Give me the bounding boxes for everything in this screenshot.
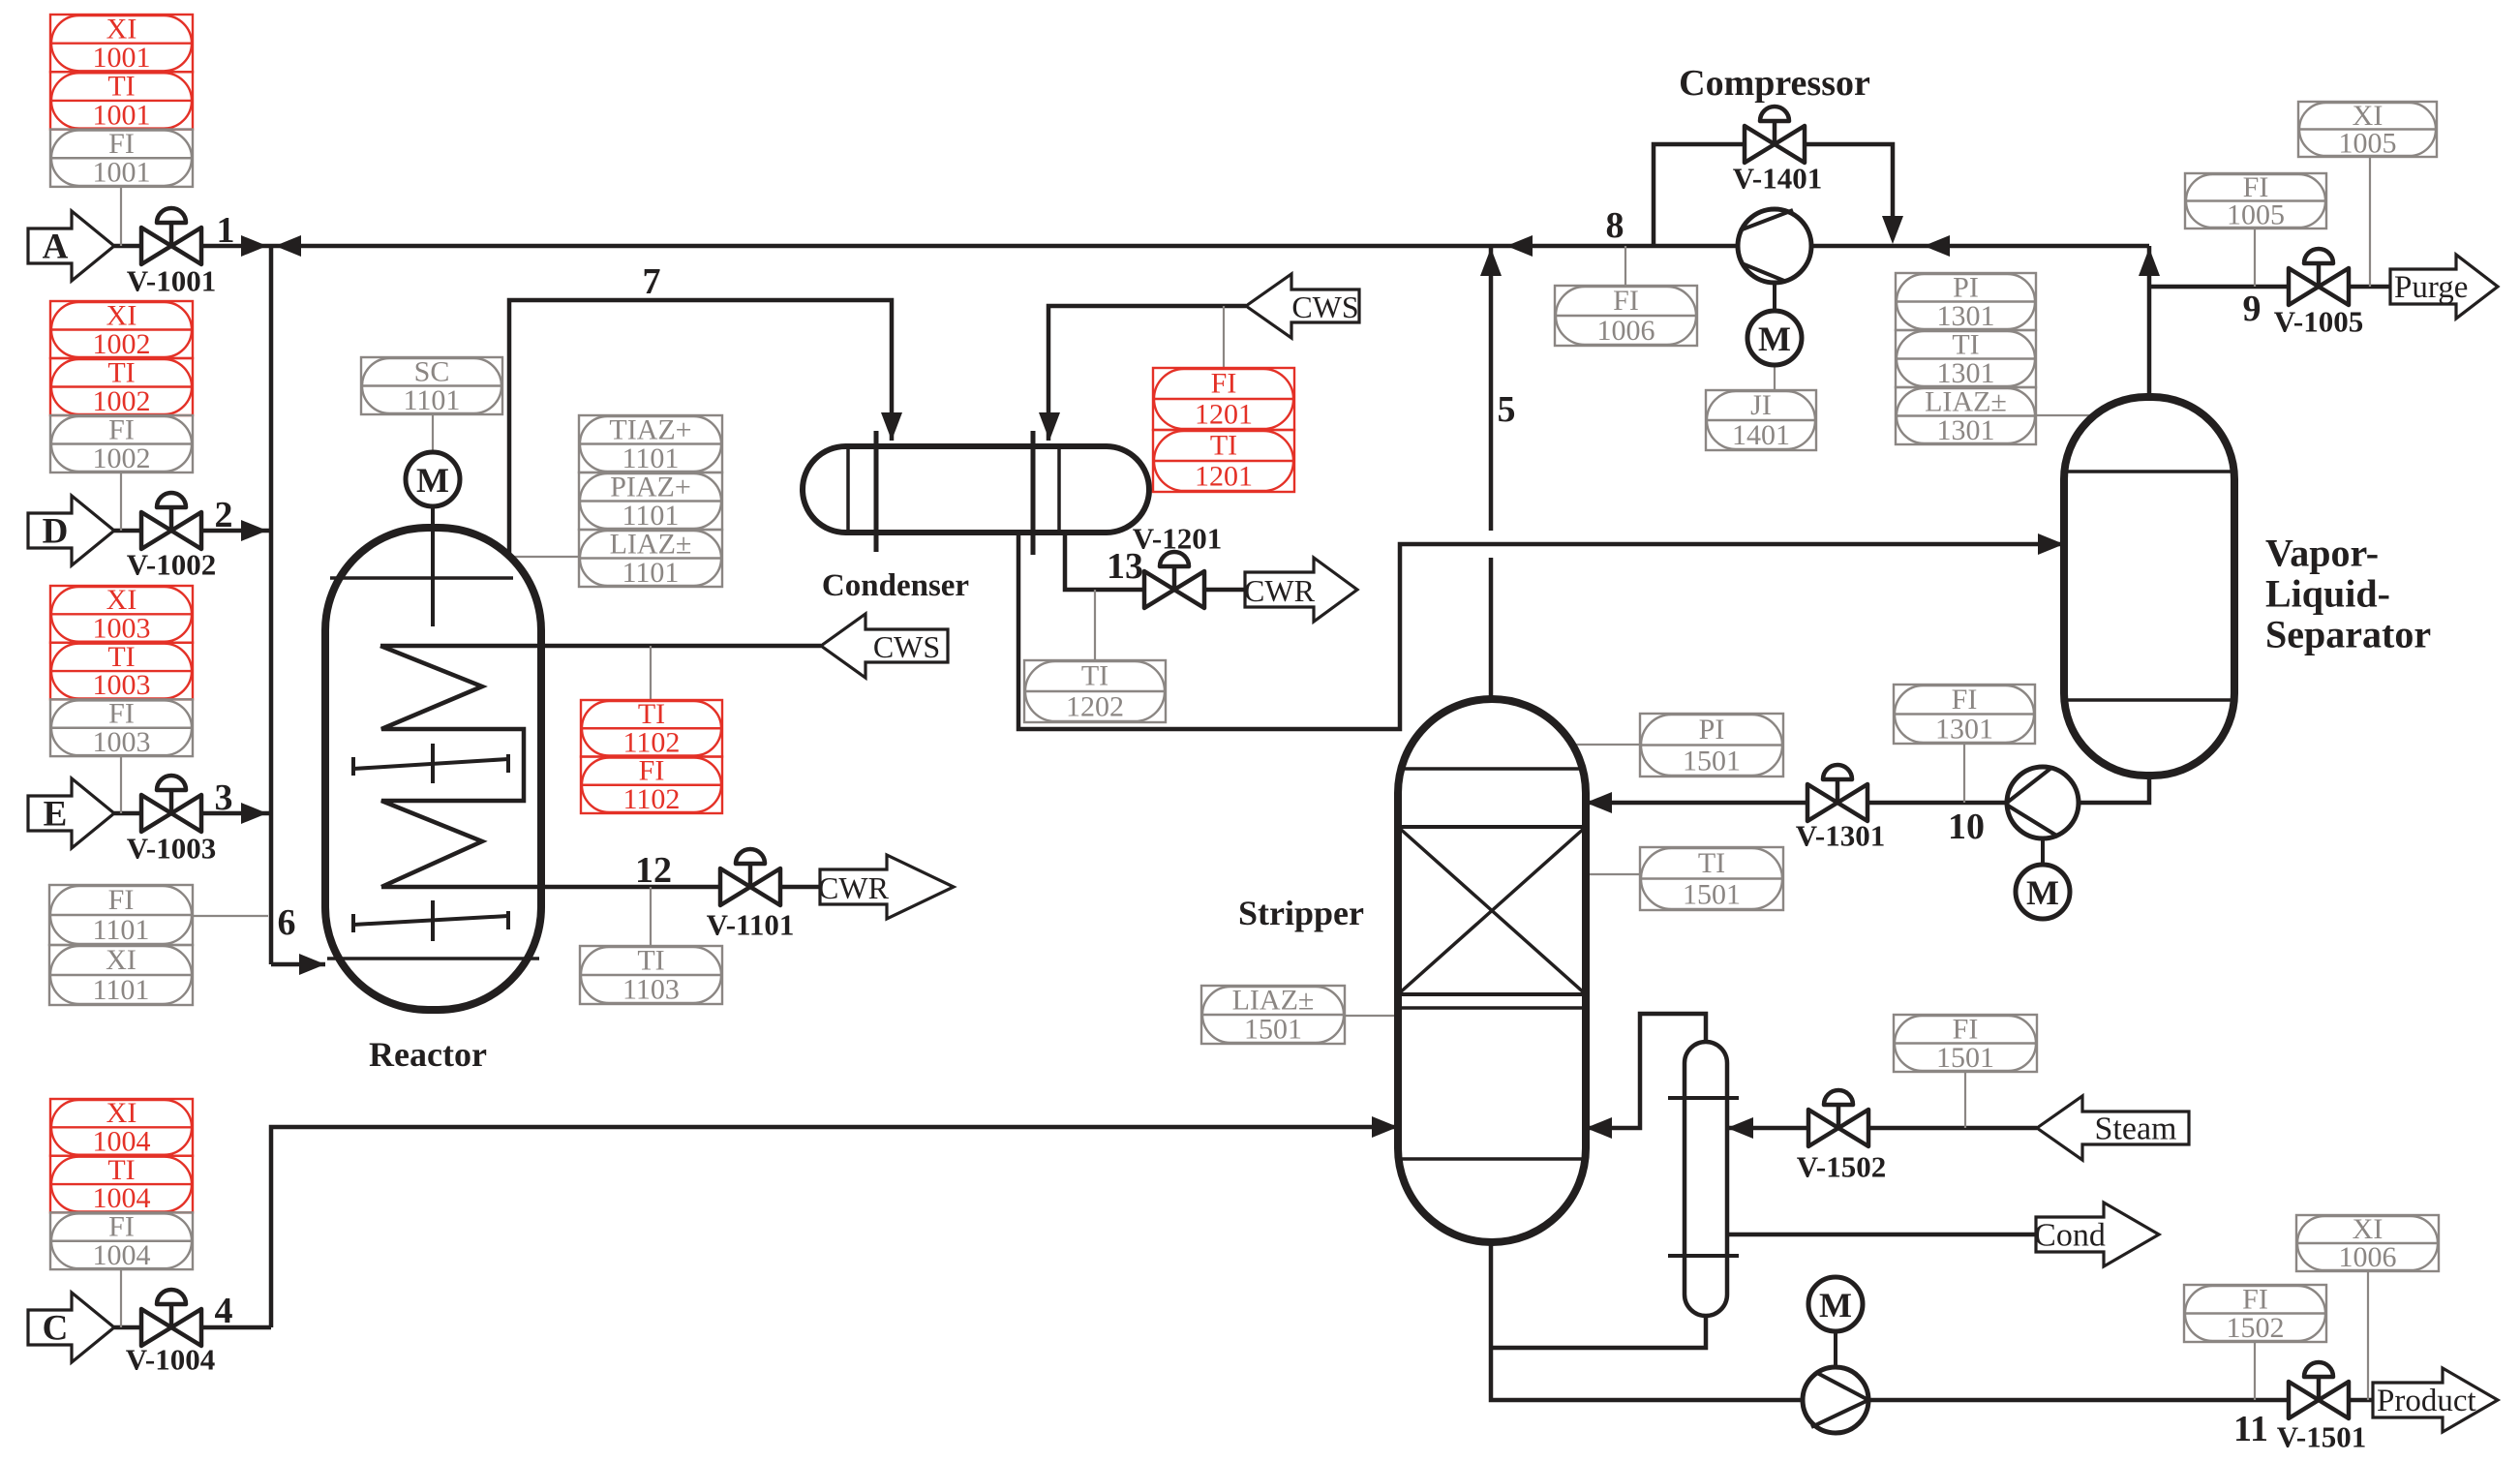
instrument stack 1003 row FI 1003	[50, 699, 193, 756]
wire stream 2 b	[201, 529, 271, 533]
instrument XI-1006	[2296, 1215, 2439, 1271]
reboiler top tube sheet	[1668, 1096, 1739, 1100]
svg-text:Steam: Steam	[2095, 1112, 2177, 1147]
reactor coil bottom pipe interior	[381, 885, 542, 890]
wire reactor coil CWS pipe	[380, 644, 821, 649]
svg-text:1003: 1003	[93, 669, 151, 701]
svg-text:1001: 1001	[93, 157, 151, 189]
gray drop FI-1006	[1624, 246, 1626, 286]
compressor chord top	[1740, 210, 1793, 230]
svg-text:V-1002: V-1002	[127, 548, 216, 582]
svg-text:1301: 1301	[1935, 713, 1993, 745]
svg-text:LIAZ±: LIAZ±	[1925, 385, 2007, 417]
pump product chord b	[1811, 1400, 1868, 1427]
wire feed header vertical x=280	[269, 246, 274, 964]
gray link FI-1101 to header	[193, 915, 268, 917]
instrument XI-1005	[2298, 102, 2437, 157]
gray link SC-1101 to motor	[432, 414, 434, 452]
svg-text:PI: PI	[1699, 714, 1725, 746]
svg-text:1201: 1201	[1195, 461, 1253, 493]
svg-text:1006: 1006	[1597, 315, 1655, 347]
instrument FI-1501	[1894, 1015, 2037, 1072]
svg-text:4: 4	[215, 1291, 233, 1331]
svg-text:PI: PI	[1953, 271, 1979, 303]
svg-text:E: E	[44, 795, 68, 835]
arrow stream 2	[241, 520, 267, 541]
svg-text:V-1502: V-1502	[1797, 1150, 1886, 1184]
wire stream 13 a	[1065, 534, 1144, 590]
valve V-1501	[2289, 1362, 2349, 1418]
instrument stack 1004 row TI 1004	[50, 1156, 193, 1213]
wire stream 1 V-1001 to junction	[201, 244, 271, 249]
svg-text:1101: 1101	[622, 500, 680, 532]
instrument FI-1502	[2184, 1285, 2326, 1342]
svg-text:XI: XI	[106, 299, 137, 331]
svg-text:FI: FI	[108, 413, 135, 445]
wire stream 1 from A arrow to V-1001	[114, 244, 141, 249]
arrow CWR condenser	[1245, 558, 1357, 622]
svg-text:M: M	[416, 461, 449, 500]
instrument stack 1002 row XI 1002	[50, 301, 193, 358]
wire steam V-1502 to reboiler	[1727, 1126, 1808, 1131]
wire bypass left	[1654, 144, 1745, 246]
wire reboiler drain	[1491, 1316, 1706, 1348]
wire stream 7 reactor to condenser	[509, 300, 892, 557]
reactor paddle 2 left tick	[351, 914, 355, 932]
svg-text:2: 2	[215, 495, 233, 535]
gray drop stack 1003	[120, 756, 122, 813]
arrow Cond	[2036, 1203, 2159, 1266]
valve V-1002	[141, 493, 201, 549]
arrow stream 7 into condenser	[881, 412, 902, 441]
svg-text:PIAZ+: PIAZ+	[610, 471, 691, 503]
instrument stack 1004 row XI 1004	[50, 1099, 193, 1156]
condenser left head weld	[846, 448, 850, 531]
svg-text:1103: 1103	[622, 974, 680, 1006]
valve V-1502	[1808, 1090, 1868, 1146]
gray drop FI-1501	[1964, 1072, 1966, 1128]
instrument stack 1101 alarms row LIAZ&#177; 1101	[579, 530, 722, 587]
svg-text:CWS: CWS	[873, 629, 940, 664]
svg-text:JI: JI	[1750, 389, 1772, 421]
svg-text:M: M	[2026, 873, 2059, 912]
svg-text:12: 12	[635, 850, 672, 891]
svg-text:FI: FI	[1953, 1013, 1979, 1045]
wire bypass right	[1805, 144, 1893, 223]
condenser left tube sheet	[874, 431, 879, 552]
svg-text:1001: 1001	[93, 99, 151, 131]
gray link PI-1501	[1575, 744, 1640, 746]
motor M compressor	[1747, 311, 1802, 365]
svg-text:Condenser: Condenser	[822, 568, 969, 603]
wire stream 3 b	[201, 811, 271, 816]
gray drop TI-1202	[1094, 590, 1096, 660]
wire stream 13 b	[1204, 588, 1245, 593]
reactor paddle 1	[353, 759, 508, 769]
instrument TI-1501	[1640, 847, 1783, 910]
arrow recycle after stream5	[1506, 235, 1533, 257]
wire stream 4 a	[114, 1325, 141, 1330]
feed arrow C	[28, 1293, 114, 1362]
compressor circle	[1738, 209, 1811, 283]
svg-text:TI: TI	[1952, 328, 1979, 360]
svg-text:XI: XI	[106, 1097, 137, 1129]
wire stream 5 upper	[1489, 246, 1494, 531]
stripper packing bottom	[1398, 992, 1586, 996]
pump 10 chord b	[2008, 806, 2058, 837]
svg-text:CWR: CWR	[818, 870, 890, 905]
wire condensate to Cond	[1727, 1233, 2036, 1237]
svg-text:1101: 1101	[93, 914, 150, 946]
arrow feed into separator	[2038, 533, 2064, 555]
valve V-1101	[720, 849, 780, 905]
instrument FI-1005	[2185, 173, 2326, 228]
arrow Steam	[2037, 1096, 2189, 1160]
valve V-1004	[141, 1290, 201, 1346]
wire stream 9 purge a	[2149, 285, 2289, 289]
valve V-1201	[1144, 552, 1204, 608]
feed arrow D	[28, 496, 114, 565]
svg-text:1101: 1101	[404, 384, 461, 416]
gray link TI-1501	[1586, 873, 1640, 875]
svg-text:TI: TI	[107, 641, 135, 673]
arrow steam into reboiler	[1727, 1117, 1753, 1139]
gray drop TI-1103	[650, 887, 652, 946]
instrument PI-1501	[1640, 714, 1783, 777]
gray drop XI-1005	[2369, 157, 2371, 287]
svg-text:1003: 1003	[93, 613, 151, 645]
valve V-1001	[141, 208, 201, 264]
stripper vessel	[1398, 699, 1586, 1242]
instrument stack 1101 row FI 1101	[49, 885, 193, 945]
svg-text:1401: 1401	[1732, 419, 1790, 451]
svg-text:FI: FI	[1613, 285, 1639, 317]
stripper top tangent	[1401, 767, 1583, 771]
svg-text:FI: FI	[2242, 1283, 2268, 1315]
gray drop stack 1002	[120, 472, 122, 531]
svg-text:1502: 1502	[2227, 1312, 2285, 1344]
wire condenser outlet to separator	[1018, 533, 2064, 729]
svg-text:Product: Product	[2377, 1384, 2476, 1418]
pump product motor stem	[1834, 1331, 1837, 1367]
wire stream 4 to stripper	[271, 1127, 1398, 1327]
pump stream 10 circle	[2007, 767, 2079, 838]
compressor chord bottom	[1742, 263, 1784, 281]
svg-text:1102: 1102	[623, 726, 681, 758]
arrow stream 6 into reactor	[299, 954, 325, 975]
svg-text:9: 9	[2243, 289, 2262, 329]
arrow CWS reactor	[821, 614, 948, 678]
instrument stack 1301 row PI 1301	[1896, 273, 2036, 330]
instrument stack 1102 row FI 1102	[581, 757, 722, 814]
wire stream 12 reactor coil to V-1101	[381, 885, 720, 890]
svg-text:M: M	[1819, 1286, 1852, 1325]
svg-text:V-1401: V-1401	[1733, 162, 1822, 196]
svg-text:1501: 1501	[1936, 1042, 1994, 1074]
instrument SC-1101	[361, 357, 502, 414]
instrument stack 1003 row TI 1003	[50, 643, 193, 700]
instrument stack 1101 alarms row TIAZ+ 1101	[579, 415, 722, 472]
svg-text:Cond: Cond	[2034, 1218, 2106, 1254]
wire stream 12 V-1101 to CWR	[780, 885, 820, 890]
condenser right tube sheet	[1031, 431, 1036, 555]
instrument TI-1202	[1024, 660, 1166, 722]
reactor shaft at paddle 1	[431, 744, 435, 783]
svg-text:TI: TI	[107, 356, 135, 388]
wire CWS supply to condenser	[1048, 306, 1246, 441]
valve V-1401	[1745, 107, 1805, 163]
arrow stream 3	[241, 803, 267, 824]
svg-text:Liquid-: Liquid-	[2265, 572, 2390, 616]
arrow CWS condenser	[1246, 274, 1359, 338]
instrument stack 1004 row FI 1004	[50, 1212, 193, 1269]
svg-text:1202: 1202	[1066, 691, 1124, 723]
svg-text:V-1005: V-1005	[2274, 305, 2363, 339]
svg-text:Compressor: Compressor	[1679, 63, 1870, 104]
svg-text:1004: 1004	[93, 1182, 151, 1214]
svg-text:1101: 1101	[622, 557, 680, 589]
svg-text:FI: FI	[108, 128, 135, 160]
arrow stream 5 into recycle	[1480, 248, 1502, 276]
wire stream 11 pump to V-1501	[1868, 1398, 2289, 1403]
gray drop TI-1102	[650, 646, 652, 700]
svg-text:TI: TI	[637, 945, 664, 977]
wire stream 4 b	[201, 1325, 271, 1330]
arrow CWR reactor	[820, 855, 954, 919]
motor M product pump	[1808, 1277, 1863, 1331]
reactor paddle 1 left tick	[351, 757, 355, 776]
pump 10 motor stem	[2041, 838, 2045, 865]
wire recycle main line y=254	[271, 244, 2149, 249]
svg-text:1006: 1006	[2339, 1241, 2397, 1273]
instrument stack 1003 row XI 1003	[50, 586, 193, 643]
svg-text:1501: 1501	[1244, 1014, 1302, 1046]
svg-text:TI: TI	[107, 71, 135, 103]
svg-text:1001: 1001	[93, 42, 151, 74]
gray drop stack 1004	[120, 1269, 122, 1327]
gray drop JI-1401	[1774, 365, 1776, 390]
reboiler bottom tube sheet	[1668, 1254, 1739, 1258]
stripper bottom tangent	[1401, 1157, 1583, 1161]
wire stream 10 pump to V-1301	[1867, 801, 2007, 806]
gray drop FI-1201	[1223, 306, 1225, 368]
svg-text:5: 5	[1498, 389, 1516, 430]
wire stream 10 V-1301 to stripper	[1586, 801, 1807, 806]
pump product circle	[1803, 1367, 1868, 1433]
svg-text:FI: FI	[1952, 684, 1978, 716]
svg-text:1102: 1102	[623, 783, 681, 815]
reactor paddle 1 right tick	[506, 754, 510, 773]
svg-text:FI: FI	[108, 698, 135, 730]
motor M pump 10	[2016, 865, 2070, 919]
instrument stack 1102 row TI 1102	[581, 700, 722, 757]
svg-text:D: D	[43, 512, 69, 552]
svg-text:FI: FI	[108, 1211, 135, 1243]
svg-text:1201: 1201	[1195, 399, 1253, 431]
svg-text:FI: FI	[1211, 368, 1237, 400]
svg-text:A: A	[43, 228, 69, 267]
svg-text:1501: 1501	[1683, 878, 1741, 910]
gray link TIAZ stack to stream 7	[510, 556, 579, 558]
svg-text:1101: 1101	[622, 442, 680, 474]
instrument stack 1201 row FI 1201	[1153, 368, 1294, 430]
svg-text:1004: 1004	[93, 1239, 151, 1271]
gray drop stack 1001	[120, 187, 122, 246]
svg-text:Vapor-: Vapor-	[2265, 532, 2379, 575]
instrument stack 1002 row TI 1002	[50, 358, 193, 415]
arrow stream 4 into stripper	[1372, 1116, 1398, 1138]
svg-text:TI: TI	[107, 1154, 135, 1186]
svg-text:1301: 1301	[1937, 357, 1995, 389]
svg-text:1003: 1003	[93, 726, 151, 758]
svg-text:XI: XI	[106, 584, 137, 616]
svg-text:13: 13	[1107, 546, 1143, 587]
condenser shell	[803, 446, 1149, 533]
instrument stack 1001 row FI 1001	[50, 130, 193, 187]
svg-text:7: 7	[643, 261, 661, 302]
svg-text:8: 8	[1606, 205, 1624, 246]
instrument stack 1001 row TI 1001	[50, 72, 193, 129]
wire separator vapor to recycle	[2147, 246, 2152, 397]
svg-text:1301: 1301	[1937, 414, 1995, 446]
svg-text:TI: TI	[638, 698, 665, 730]
svg-text:Stripper: Stripper	[1238, 894, 1364, 932]
svg-text:XI: XI	[106, 944, 137, 976]
valve V-1003	[141, 776, 201, 832]
arrow Purge	[2390, 255, 2498, 319]
arrow stream 1 into junction	[241, 235, 267, 257]
arrow bypass into main	[1882, 216, 1903, 244]
motor M reactor agitator	[406, 452, 460, 506]
svg-text:1101: 1101	[93, 974, 150, 1006]
instrument stack 1101 row XI 1101	[49, 945, 193, 1005]
svg-text:1005: 1005	[2339, 127, 2397, 159]
arrow recycle into junction	[275, 235, 301, 257]
gray link LIAZ-1501	[1345, 1015, 1398, 1017]
svg-text:V-1201: V-1201	[1133, 522, 1222, 556]
svg-text:V-1003: V-1003	[127, 832, 216, 866]
svg-text:CWR: CWR	[1244, 573, 1316, 608]
compressor motor stem	[1773, 283, 1776, 311]
svg-text:11: 11	[2233, 1409, 2268, 1449]
svg-text:1005: 1005	[2227, 198, 2285, 230]
arrow recycle after compressor	[1924, 235, 1950, 257]
separator vessel	[2064, 397, 2234, 776]
reactor coil top pipe interior	[380, 644, 542, 649]
svg-text:Purge: Purge	[2394, 270, 2468, 305]
svg-text:LIAZ±: LIAZ±	[1232, 985, 1315, 1017]
svg-text:CWS: CWS	[1291, 289, 1358, 324]
svg-text:V-1101: V-1101	[707, 908, 795, 942]
instrument stack 1001 row XI 1001	[50, 15, 193, 72]
instrument stack 1301 row TI 1301	[1896, 330, 2036, 387]
svg-text:TI: TI	[1698, 847, 1725, 879]
instrument stack 1201 row TI 1201	[1153, 430, 1294, 492]
svg-text:1002: 1002	[93, 328, 151, 360]
reactor paddle 2 right tick	[506, 911, 510, 929]
reboiler vessel	[1685, 1042, 1727, 1316]
valve V-1301	[1807, 765, 1867, 821]
instrument stack 1301 row LIAZ&#177; 1301	[1896, 387, 2036, 444]
feed arrow E	[28, 778, 114, 848]
svg-text:Reactor: Reactor	[369, 1035, 487, 1074]
wire stream 2 a	[114, 529, 141, 533]
instrument LIAZ-1501	[1201, 986, 1345, 1044]
arrow stream 10 into stripper	[1586, 792, 1612, 813]
reactor cooling coil zigzag	[380, 646, 524, 887]
svg-text:1: 1	[217, 210, 235, 251]
svg-text:TIAZ+: TIAZ+	[609, 413, 691, 445]
reactor paddle 2	[353, 916, 508, 925]
instrument JI-1401	[1706, 390, 1816, 450]
svg-text:LIAZ±: LIAZ±	[610, 528, 692, 560]
instrument stack 1002 row FI 1002	[50, 415, 193, 472]
reactor shaft at paddle 2	[431, 900, 435, 941]
instrument stack 1101 alarms row PIAZ+ 1101	[579, 472, 722, 530]
arrow separator vapor up	[2139, 248, 2160, 276]
svg-text:SC: SC	[414, 355, 450, 387]
arrow Product	[2373, 1368, 2498, 1432]
svg-text:XI: XI	[106, 13, 137, 45]
arrow CWS into condenser	[1039, 412, 1060, 441]
reactor agitator shaft	[431, 506, 435, 626]
svg-text:1004: 1004	[93, 1126, 151, 1158]
instrument FI-1006	[1555, 286, 1697, 346]
svg-text:V-1501: V-1501	[2277, 1420, 2366, 1454]
wire stream 6 into reactor	[271, 962, 325, 967]
wire stream 3 a	[114, 811, 141, 816]
svg-text:1501: 1501	[1683, 745, 1741, 777]
svg-text:1002: 1002	[93, 442, 151, 474]
gray drop FI-1301	[1963, 744, 1965, 803]
svg-text:6: 6	[278, 902, 296, 943]
reactor top tangent line	[330, 576, 513, 580]
gray drop XI-1006	[2367, 1271, 2369, 1400]
svg-text:TI: TI	[1081, 660, 1108, 692]
svg-text:10: 10	[1948, 807, 1985, 847]
arrow reboiler return into stripper	[1586, 1117, 1612, 1139]
svg-text:V-1301: V-1301	[1796, 819, 1885, 853]
svg-text:V-1001: V-1001	[127, 264, 216, 298]
pump 10 chord a	[2007, 768, 2051, 803]
wire stream 11 stripper bottoms to pump	[1491, 1242, 1803, 1400]
instrument FI-1301	[1894, 685, 2035, 744]
reactor vessel	[325, 528, 541, 1010]
svg-text:3: 3	[215, 777, 233, 818]
stripper packing X diag 1	[1398, 827, 1586, 994]
svg-text:1002: 1002	[93, 385, 151, 417]
stripper packing X diag 2	[1398, 827, 1586, 994]
pump product chord a	[1817, 1373, 1868, 1400]
svg-text:M: M	[1758, 320, 1791, 358]
valve V-1005	[2289, 249, 2349, 305]
reactor bottom tangent line	[327, 957, 539, 960]
separator bottom tangent	[2066, 698, 2232, 702]
wire stream 9 purge b	[2349, 285, 2390, 289]
svg-text:TI: TI	[1210, 430, 1237, 462]
gray drop FI-1005	[2254, 228, 2256, 287]
gray link LIAZ-1301 to separator	[2036, 414, 2099, 416]
svg-text:FI: FI	[108, 884, 135, 916]
svg-text:FI: FI	[639, 755, 665, 787]
svg-text:C: C	[43, 1309, 69, 1349]
stripper packing top	[1398, 825, 1586, 829]
feed arrow A	[28, 211, 114, 281]
wire separator bottoms to pump	[2079, 776, 2149, 803]
condenser right head weld	[1057, 448, 1061, 531]
wire stream 11 V-1501 to Product	[2349, 1398, 2373, 1403]
instrument TI-1103	[580, 946, 722, 1004]
